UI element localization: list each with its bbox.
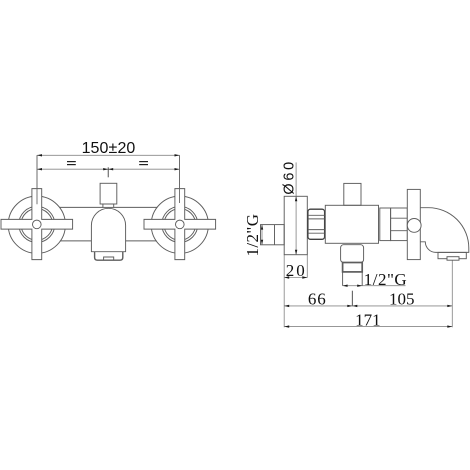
svg-text:1/2"G: 1/2"G: [364, 270, 407, 289]
svg-text:20: 20: [286, 261, 307, 280]
svg-text:Ø60: Ø60: [282, 159, 298, 195]
svg-text:1/2"G: 1/2"G: [243, 214, 262, 257]
svg-text:66: 66: [308, 290, 327, 309]
svg-text:171: 171: [355, 310, 381, 329]
svg-text:150±20: 150±20: [82, 140, 136, 157]
svg-text:105: 105: [389, 289, 415, 308]
